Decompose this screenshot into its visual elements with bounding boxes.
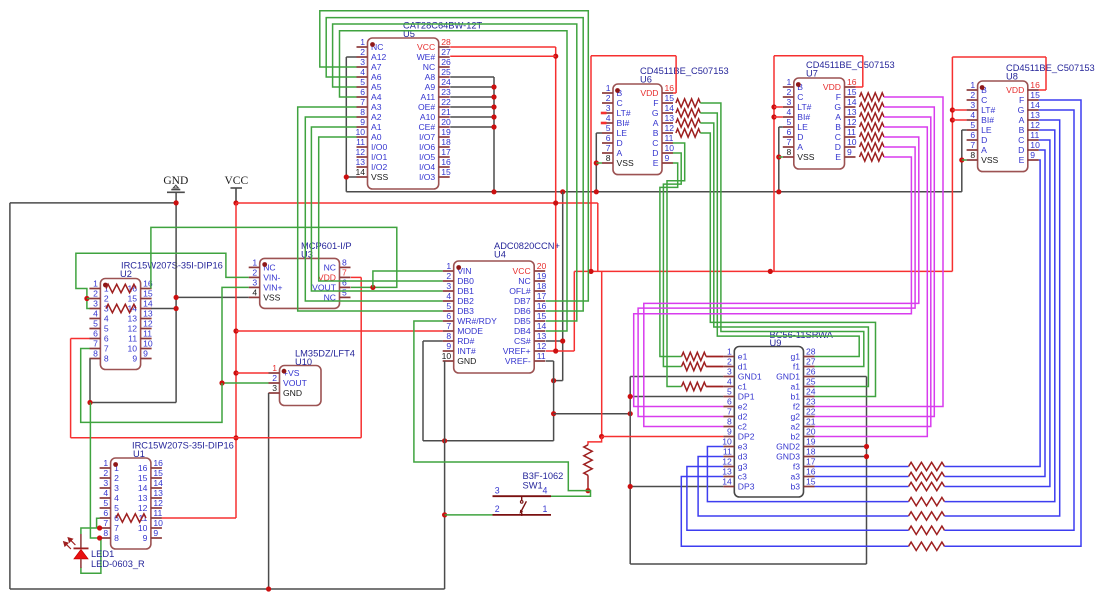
svg-text:D: D bbox=[1018, 145, 1024, 155]
svg-text:13: 13 bbox=[537, 331, 547, 341]
svg-text:7: 7 bbox=[104, 344, 109, 354]
LED1 arrow2 bbox=[64, 542, 71, 549]
wire vcc drop x601 bbox=[601, 271, 603, 436]
wire U7 to U9 b2 bbox=[815, 127, 928, 437]
svg-text:14: 14 bbox=[153, 478, 163, 488]
svg-text:5: 5 bbox=[787, 117, 792, 127]
svg-text:3: 3 bbox=[103, 478, 108, 488]
svg-text:VREF-: VREF- bbox=[505, 356, 531, 366]
wire U9 a3 bbox=[815, 476, 909, 478]
wire U6 LE left bbox=[596, 132, 602, 134]
svg-text:3: 3 bbox=[252, 278, 257, 288]
svg-text:15: 15 bbox=[537, 311, 547, 321]
svg-text:LED1: LED1 bbox=[91, 549, 114, 559]
svg-text:4: 4 bbox=[446, 291, 451, 301]
svg-text:5: 5 bbox=[104, 324, 109, 334]
U2 internal resistor p3-p14 bbox=[106, 304, 136, 312]
junction U9 DP1 bbox=[628, 394, 633, 399]
svg-text:A7: A7 bbox=[371, 62, 382, 72]
label U6 bbox=[640, 66, 729, 85]
svg-text:DB7: DB7 bbox=[514, 296, 531, 306]
svg-text:NC: NC bbox=[518, 276, 530, 286]
svg-text:A11: A11 bbox=[421, 92, 436, 102]
svg-text:1: 1 bbox=[272, 363, 277, 373]
wire U6 VDD stub bbox=[673, 92, 676, 94]
svg-text:11: 11 bbox=[128, 334, 137, 344]
svg-text:19: 19 bbox=[441, 127, 451, 137]
svg-text:6: 6 bbox=[446, 311, 451, 321]
svg-text:18: 18 bbox=[537, 281, 547, 291]
IC U8 CD4511BE bbox=[967, 80, 1040, 171]
svg-text:3: 3 bbox=[360, 57, 365, 67]
wire R-c1 lead bbox=[706, 386, 723, 388]
svg-text:U1: U1 bbox=[133, 449, 145, 459]
svg-text:g1: g1 bbox=[790, 352, 800, 362]
svg-text:13: 13 bbox=[143, 309, 153, 319]
wire U3 VDD right bbox=[351, 276, 361, 278]
wire U7 VDD drop bbox=[862, 56, 864, 87]
svg-text:9: 9 bbox=[446, 341, 451, 351]
svg-text:a2: a2 bbox=[790, 422, 800, 432]
svg-text:1: 1 bbox=[727, 347, 732, 357]
wire U9 right gnd vertical bbox=[866, 377, 868, 565]
wire U5 A12 stub left bbox=[346, 56, 356, 58]
svg-text:A: A bbox=[617, 148, 623, 158]
svg-text:OE#: OE# bbox=[418, 102, 435, 112]
junction U7 BI# bbox=[771, 114, 776, 119]
svg-text:VSS: VSS bbox=[617, 158, 634, 168]
resistor R3-476.5 bbox=[909, 472, 945, 480]
svg-text:2: 2 bbox=[727, 357, 732, 367]
resistor R-e1 bbox=[682, 352, 707, 360]
svg-text:C: C bbox=[1018, 135, 1024, 145]
junction U2-pin14-gnd bbox=[174, 306, 179, 311]
svg-text:b2: b2 bbox=[790, 432, 800, 442]
wire U7 vcc drop x774 bbox=[773, 56, 775, 272]
svg-text:1: 1 bbox=[606, 83, 611, 93]
junction rail203-556 bbox=[553, 200, 558, 205]
svg-text:4: 4 bbox=[360, 67, 365, 77]
svg-text:14: 14 bbox=[355, 167, 365, 177]
wire U8 VDD loop top bbox=[952, 56, 1046, 58]
wire U4 CS# bbox=[546, 340, 563, 342]
svg-text:VREF+: VREF+ bbox=[503, 346, 531, 356]
wire U6 to U9 f1 bbox=[700, 103, 864, 367]
wire U6 to U9 b1 bbox=[700, 133, 875, 397]
wire U9 c3 around bbox=[681, 477, 908, 547]
svg-text:f2: f2 bbox=[793, 402, 800, 412]
wire U10 +VS bbox=[236, 372, 269, 374]
svg-text:BI#: BI# bbox=[981, 115, 994, 125]
wire U4 VREF+ bbox=[546, 350, 575, 352]
svg-text:16: 16 bbox=[847, 77, 857, 87]
svg-text:14: 14 bbox=[1030, 100, 1040, 110]
svg-text:10: 10 bbox=[143, 339, 153, 349]
svg-text:1: 1 bbox=[970, 80, 975, 90]
svg-text:13: 13 bbox=[847, 107, 857, 117]
junction gnd-413 bbox=[551, 411, 556, 416]
wire U9 bottom gnd loop bbox=[630, 563, 866, 565]
junction pullup-sw bbox=[585, 488, 590, 493]
svg-text:14: 14 bbox=[143, 299, 153, 309]
wire vcc rail203 drop bbox=[597, 203, 599, 271]
LED1 triangle bbox=[74, 550, 88, 559]
junction vcc-U10 bbox=[233, 370, 238, 375]
svg-text:CE#: CE# bbox=[418, 122, 435, 132]
label U1 bbox=[132, 441, 234, 460]
resistor R-U7-97 bbox=[860, 93, 885, 101]
wire U7 to U9 g2 bbox=[815, 107, 935, 417]
junction U6 VSS bbox=[594, 160, 599, 165]
resistor R-U7-127 bbox=[860, 123, 885, 131]
label LED1 bbox=[91, 549, 145, 569]
svg-text:27: 27 bbox=[441, 47, 451, 57]
wire U9 DP2 bbox=[602, 436, 724, 438]
svg-text:10: 10 bbox=[355, 127, 365, 137]
svg-text:3: 3 bbox=[970, 100, 975, 110]
svg-text:27: 27 bbox=[806, 357, 816, 367]
svg-text:5: 5 bbox=[606, 123, 611, 133]
svg-text:1: 1 bbox=[360, 37, 365, 47]
wire U8 A down bbox=[945, 120, 1060, 516]
svg-text:6: 6 bbox=[342, 278, 347, 288]
svg-text:13: 13 bbox=[722, 467, 732, 477]
svg-text:VCC: VCC bbox=[417, 42, 435, 52]
svg-text:U4: U4 bbox=[494, 250, 506, 260]
svg-text:4: 4 bbox=[93, 309, 98, 319]
svg-text:13: 13 bbox=[665, 113, 675, 123]
svg-text:15: 15 bbox=[1030, 90, 1040, 100]
junction U9-left-gnd-413 bbox=[628, 411, 633, 416]
junction U8 VSS bbox=[959, 157, 964, 162]
junction VREF- join bbox=[551, 378, 556, 383]
svg-text:VSS: VSS bbox=[797, 152, 814, 162]
wire U6 vcc drop x594 bbox=[590, 56, 592, 272]
LED1 anode lead bbox=[80, 534, 82, 548]
svg-text:2: 2 bbox=[103, 468, 108, 478]
wire U5 WE# bbox=[450, 55, 556, 57]
junction VOUT branch bbox=[370, 285, 375, 290]
wire U5 right gnd vertical bbox=[493, 77, 495, 192]
svg-text:9: 9 bbox=[143, 533, 148, 543]
wire gnd green to U1 pin8 bbox=[90, 403, 99, 539]
wire U9 DP1 bbox=[630, 396, 723, 398]
wire U5 A11 to gnd bbox=[450, 96, 494, 98]
svg-text:I/O6: I/O6 bbox=[419, 142, 435, 152]
svg-text:A9: A9 bbox=[425, 82, 436, 92]
junction U1 pin8 bbox=[97, 535, 102, 540]
wire U9 DP3 bbox=[630, 486, 723, 488]
svg-text:8: 8 bbox=[114, 533, 119, 543]
svg-text:A5: A5 bbox=[371, 82, 382, 92]
svg-text:A4: A4 bbox=[371, 92, 382, 102]
wire U7 LT# branch bbox=[774, 106, 783, 108]
svg-text:DB4: DB4 bbox=[514, 326, 531, 336]
svg-text:9: 9 bbox=[665, 153, 670, 163]
junction U7 LT# bbox=[771, 104, 776, 109]
svg-text:10: 10 bbox=[128, 344, 138, 354]
junction U7 VSS bbox=[776, 154, 781, 159]
svg-text:8: 8 bbox=[787, 147, 792, 157]
svg-text:WR#/RDY: WR#/RDY bbox=[457, 316, 497, 326]
SW1 pin4 number bbox=[543, 485, 548, 495]
wire gnd to U2 pin8 jog bbox=[90, 402, 176, 404]
svg-text:D: D bbox=[617, 138, 623, 148]
wire SW pin2 gnd bbox=[445, 514, 493, 516]
wire A2-DB2 bus bbox=[305, 117, 442, 301]
junction U5-right-97 bbox=[491, 94, 496, 99]
svg-text:11: 11 bbox=[1030, 130, 1039, 140]
LED1 cathode lead bbox=[80, 559, 82, 568]
svg-text:DB1: DB1 bbox=[457, 286, 474, 296]
SW1 lever bbox=[520, 496, 527, 516]
wire LED anode to U1 pin7 bbox=[81, 528, 100, 534]
svg-text:14: 14 bbox=[847, 97, 857, 107]
svg-text:8: 8 bbox=[446, 331, 451, 341]
resistor R3-466.5 bbox=[909, 462, 945, 470]
svg-text:17: 17 bbox=[806, 457, 816, 467]
junction DP2-vcc bbox=[599, 434, 604, 439]
svg-text:5: 5 bbox=[360, 77, 365, 87]
wire U2 pin6 red down bbox=[70, 339, 72, 438]
wire U7 to U9 f2 bbox=[815, 97, 944, 407]
svg-text:A6: A6 bbox=[371, 72, 382, 82]
svg-text:DP3: DP3 bbox=[738, 482, 755, 492]
svg-text:VDD: VDD bbox=[1006, 85, 1024, 95]
svg-text:I/O7: I/O7 bbox=[419, 132, 435, 142]
wire U2 pin2 tap bbox=[87, 298, 90, 300]
wire U6 VDD loop top bbox=[591, 55, 676, 57]
svg-text:12: 12 bbox=[143, 319, 153, 329]
svg-text:G: G bbox=[652, 108, 659, 118]
wire U5 A9 to gnd bbox=[450, 86, 494, 88]
svg-text:13: 13 bbox=[128, 314, 138, 324]
svg-text:12: 12 bbox=[537, 341, 547, 351]
svg-text:10: 10 bbox=[138, 523, 148, 533]
wire U8 LT# branch bbox=[952, 109, 966, 111]
svg-text:GND1: GND1 bbox=[776, 372, 800, 382]
svg-text:I/O3: I/O3 bbox=[419, 172, 435, 182]
wire A6-DB6 bus bbox=[326, 18, 583, 311]
svg-text:d2: d2 bbox=[738, 412, 748, 422]
svg-text:2: 2 bbox=[495, 504, 500, 514]
svg-text:8: 8 bbox=[727, 417, 732, 427]
svg-text:U6: U6 bbox=[640, 75, 652, 85]
wire U6 to U9 g1 bbox=[700, 113, 859, 357]
resistor R-U6-B bbox=[676, 129, 700, 137]
wire U7 VSS nub bbox=[779, 156, 783, 158]
svg-text:f1: f1 bbox=[793, 362, 800, 372]
svg-text:12: 12 bbox=[847, 117, 857, 127]
svg-text:VIN-: VIN- bbox=[263, 273, 280, 283]
wire U9 f3 bbox=[815, 466, 909, 468]
svg-text:A: A bbox=[1019, 115, 1025, 125]
wire LED cathode loop to U1 pin8 bbox=[81, 538, 101, 573]
wire gnd bottom rail bbox=[10, 588, 445, 590]
wire U9 GND3 bbox=[815, 456, 867, 458]
svg-text:2: 2 bbox=[360, 47, 365, 57]
wire U5 VSS stub left bbox=[346, 176, 356, 178]
wire U7 VDD loop top bbox=[774, 55, 863, 57]
svg-text:16: 16 bbox=[441, 157, 451, 167]
wire U8 LE left bbox=[962, 129, 967, 131]
svg-text:B: B bbox=[835, 122, 841, 132]
svg-text:MODE: MODE bbox=[457, 326, 483, 336]
svg-text:U2: U2 bbox=[120, 269, 132, 279]
svg-text:a3: a3 bbox=[790, 472, 800, 482]
wire U8 VDD stub bbox=[1039, 89, 1046, 91]
svg-text:2: 2 bbox=[272, 373, 277, 383]
SW1 bottom bar bbox=[493, 514, 552, 516]
svg-text:4: 4 bbox=[543, 485, 548, 495]
svg-text:A: A bbox=[653, 118, 659, 128]
junction U5-right-117 bbox=[491, 114, 496, 119]
wire U9 g3 around bbox=[687, 467, 909, 531]
wire U5 VCC pin28 bbox=[450, 46, 556, 48]
svg-text:VCC: VCC bbox=[513, 266, 531, 276]
svg-text:B3F-1062: B3F-1062 bbox=[523, 471, 564, 481]
svg-text:GND2: GND2 bbox=[776, 442, 800, 452]
GND symbol bbox=[163, 175, 188, 192]
svg-text:13: 13 bbox=[138, 493, 148, 503]
svg-text:b3: b3 bbox=[790, 482, 800, 492]
wire U3 VDD to vcc vertical bbox=[236, 437, 361, 439]
svg-text:a1: a1 bbox=[790, 382, 800, 392]
LED1 arrow1 bbox=[68, 538, 75, 545]
svg-text:1: 1 bbox=[543, 504, 548, 514]
svg-text:g2: g2 bbox=[790, 412, 800, 422]
svg-text:F: F bbox=[653, 98, 658, 108]
wire A5-DB5 bus bbox=[333, 24, 577, 321]
svg-text:8: 8 bbox=[93, 349, 98, 359]
svg-text:NC: NC bbox=[423, 62, 435, 72]
svg-text:U7: U7 bbox=[806, 69, 818, 79]
svg-text:D: D bbox=[835, 142, 841, 152]
svg-text:DP1: DP1 bbox=[738, 392, 755, 402]
svg-text:1: 1 bbox=[446, 261, 451, 271]
svg-text:A1: A1 bbox=[371, 122, 382, 132]
svg-text:c3: c3 bbox=[738, 472, 747, 482]
svg-text:15: 15 bbox=[153, 468, 163, 478]
svg-text:D: D bbox=[981, 135, 987, 145]
svg-text:5: 5 bbox=[342, 288, 347, 298]
svg-text:VDD: VDD bbox=[823, 82, 841, 92]
junction U1 pin7 bbox=[97, 525, 102, 530]
svg-text:I/O5: I/O5 bbox=[419, 152, 435, 162]
svg-text:9: 9 bbox=[132, 354, 137, 364]
label U3 bbox=[301, 241, 352, 260]
junction U5-VSS bbox=[344, 174, 349, 179]
resistor R-U7-117 bbox=[860, 113, 885, 121]
svg-text:WE#: WE# bbox=[417, 52, 436, 62]
wire gnd mid rail bbox=[346, 191, 962, 193]
svg-text:d1: d1 bbox=[738, 362, 748, 372]
U2 internal resistor p1-p16 bbox=[106, 284, 136, 292]
wire U4 VREF- bbox=[546, 360, 554, 362]
label U9 bbox=[770, 330, 834, 348]
svg-text:1: 1 bbox=[103, 458, 108, 468]
svg-text:6: 6 bbox=[787, 127, 792, 137]
svg-text:2: 2 bbox=[606, 93, 611, 103]
wire U1 pin6 fork bbox=[97, 518, 100, 528]
svg-text:GND: GND bbox=[283, 388, 302, 398]
svg-text:CAT28C64BW-12T: CAT28C64BW-12T bbox=[403, 21, 483, 31]
wire U6 LT# nub bbox=[601, 112, 607, 115]
resistor R-U6-F bbox=[676, 99, 700, 107]
svg-text:7: 7 bbox=[446, 321, 451, 331]
svg-text:D: D bbox=[797, 132, 803, 142]
svg-text:4: 4 bbox=[727, 377, 732, 387]
wire A0-DB0 bus bbox=[319, 137, 443, 281]
junction rail271-770 bbox=[768, 269, 773, 274]
svg-text:E: E bbox=[835, 152, 841, 162]
wire U6 BI# nub bbox=[601, 122, 607, 125]
wire U6 VDD drop bbox=[675, 56, 677, 93]
svg-text:g3: g3 bbox=[738, 462, 748, 472]
resistor R-c1 bbox=[682, 382, 707, 390]
wire U4 MODE bbox=[236, 330, 443, 332]
svg-text:22: 22 bbox=[441, 97, 451, 107]
svg-text:2: 2 bbox=[970, 90, 975, 100]
svg-text:12: 12 bbox=[128, 324, 138, 334]
junction vcc-U3VDD bbox=[233, 435, 238, 440]
svg-text:2: 2 bbox=[93, 289, 98, 299]
wire gnd left border vertical bbox=[9, 203, 11, 589]
svg-text:7: 7 bbox=[342, 268, 347, 278]
IC U3 MCP601-I/P op-amp bbox=[249, 258, 351, 309]
svg-text:7: 7 bbox=[606, 143, 611, 153]
wire VIN- feedback net bbox=[76, 253, 249, 308]
svg-text:2: 2 bbox=[446, 271, 451, 281]
svg-text:B: B bbox=[1019, 125, 1025, 135]
svg-text:12: 12 bbox=[153, 498, 163, 508]
junction mid-rail-cs bbox=[560, 189, 565, 194]
svg-text:5: 5 bbox=[114, 503, 119, 513]
svg-text:11: 11 bbox=[153, 508, 162, 518]
svg-text:GND1: GND1 bbox=[738, 372, 762, 382]
wire U7 LE left bbox=[779, 126, 783, 128]
svg-text:3: 3 bbox=[114, 483, 119, 493]
svg-text:CD4511BE_C507153: CD4511BE_C507153 bbox=[1006, 63, 1095, 73]
svg-text:c1: c1 bbox=[738, 382, 747, 392]
wire U5 A10 to gnd bbox=[450, 116, 494, 118]
label SW1 bbox=[523, 471, 564, 491]
wire U6 E to e1 bbox=[660, 163, 682, 357]
svg-text:8: 8 bbox=[103, 528, 108, 538]
wire U7 to U9 c2 bbox=[644, 137, 919, 427]
LED1 cathode bar bbox=[74, 547, 89, 549]
junction U5-gnd-rail bbox=[491, 189, 496, 194]
junction U6 gnd rail bbox=[594, 189, 599, 194]
junction U9 GND3 bbox=[864, 454, 869, 459]
resistor R-U7-147 bbox=[860, 143, 885, 151]
wire U9 GND1 left bbox=[630, 376, 723, 378]
svg-text:3: 3 bbox=[787, 97, 792, 107]
svg-text:G: G bbox=[834, 102, 841, 112]
svg-text:IRC15W207S-35I-DIP16: IRC15W207S-35I-DIP16 bbox=[121, 261, 223, 271]
svg-text:25: 25 bbox=[806, 377, 816, 387]
svg-text:9: 9 bbox=[847, 147, 852, 157]
svg-text:VSS: VSS bbox=[263, 293, 280, 303]
svg-text:4: 4 bbox=[787, 107, 792, 117]
svg-text:12: 12 bbox=[355, 147, 365, 157]
svg-text:11: 11 bbox=[356, 137, 365, 147]
svg-text:C: C bbox=[797, 92, 803, 102]
resistor R-U6-A bbox=[676, 119, 700, 127]
wire U6 C to c1 bbox=[667, 143, 685, 387]
wire R-e1 lead bbox=[706, 356, 723, 358]
svg-text:10: 10 bbox=[847, 137, 857, 147]
